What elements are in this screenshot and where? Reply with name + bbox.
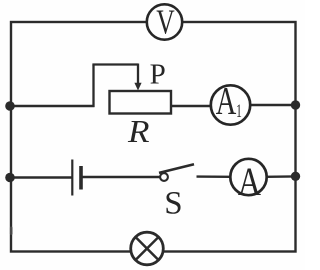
svg-text:A: A (238, 159, 261, 203)
svg-text:P: P (150, 58, 166, 90)
svg-text:A: A (216, 80, 237, 122)
svg-text:1: 1 (236, 101, 242, 122)
svg-text:S: S (164, 186, 182, 222)
svg-text:R: R (127, 114, 150, 149)
svg-text:V: V (156, 3, 174, 42)
